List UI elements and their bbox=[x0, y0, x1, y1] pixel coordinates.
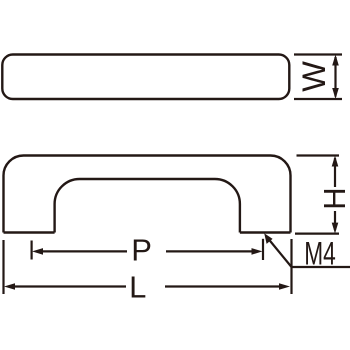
svg-text:M4: M4 bbox=[304, 236, 336, 272]
dimension W arrowhead down bbox=[332, 88, 339, 99]
M4 leader arrowhead bbox=[264, 233, 272, 244]
dimension P line right segment bbox=[166, 250, 253, 252]
dimension L extension line left bbox=[2, 240, 4, 294]
dimension W extension line top bbox=[294, 53, 342, 55]
dimension H arrowhead up bbox=[332, 156, 339, 167]
handle front view left foot bottom edge bbox=[4, 231, 55, 233]
handle top view outline bbox=[2, 55, 289, 100]
dimension L arrowhead right bbox=[279, 283, 290, 290]
dimension W arrowhead up bbox=[332, 55, 339, 66]
dimension L extension line right bbox=[290, 239, 292, 294]
dimension P extension line left bbox=[31, 241, 33, 260]
svg-text:P: P bbox=[131, 232, 152, 267]
dimension W extension line bottom bbox=[294, 98, 342, 100]
dimension L arrowhead left bbox=[4, 283, 15, 290]
dimension L line right segment bbox=[165, 285, 280, 287]
dimension P arrowhead right bbox=[252, 248, 263, 255]
dimension P arrowhead left bbox=[32, 248, 43, 255]
svg-text:L: L bbox=[129, 269, 146, 304]
dimension H arrowhead down bbox=[332, 223, 339, 234]
svg-text:W: W bbox=[296, 61, 332, 92]
dimension P line left segment bbox=[42, 250, 127, 252]
dimension L line left segment bbox=[14, 285, 126, 287]
dimension W arrow line bbox=[334, 57, 336, 97]
dimension P extension line right bbox=[262, 239, 264, 260]
handle front view outer outline bbox=[4, 156, 291, 233]
handle front view right foot bottom edge bbox=[240, 231, 291, 233]
M4 leader line diagonal bbox=[269, 239, 350, 267]
dimension H extension line bottom bbox=[295, 233, 339, 235]
dimension H arrow line upper segment bbox=[334, 158, 336, 187]
handle front view inner outline bbox=[55, 179, 240, 233]
svg-text:H: H bbox=[317, 187, 350, 209]
dimension H arrow line lower segment bbox=[334, 211, 336, 230]
dimension H extension line top bbox=[297, 154, 340, 156]
